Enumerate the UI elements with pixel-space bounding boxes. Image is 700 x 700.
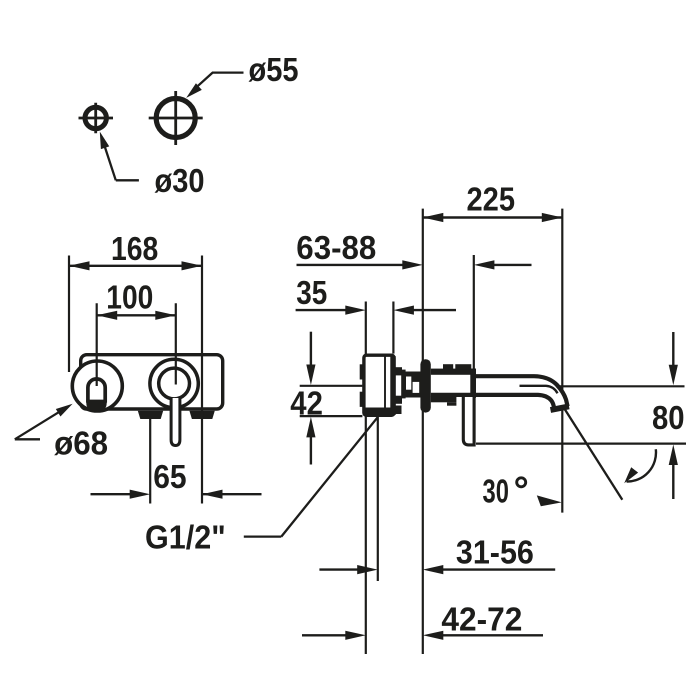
svg-text:ø55: ø55	[249, 51, 299, 88]
extension line for 35 through body	[365, 302, 367, 655]
svg-text:ø68: ø68	[54, 425, 108, 462]
svg-text:42-72: 42-72	[441, 600, 522, 637]
dim 65	[91, 419, 262, 504]
in-wall valve body	[364, 355, 394, 415]
dim 63-88	[297, 255, 532, 370]
top rib 2	[455, 364, 471, 369]
wall plate	[81, 355, 223, 409]
spout shadow blob	[86, 400, 106, 412]
top arm	[394, 367, 403, 375]
svg-text:168: 168	[111, 230, 158, 267]
hole symbol o55 circle with crosshair	[149, 91, 203, 145]
svg-text:65: 65	[153, 458, 186, 495]
white underlay of spout	[431, 376, 566, 408]
leader arrow to o30	[96, 130, 139, 180]
svg-text:31-56: 31-56	[456, 534, 534, 571]
leader arrow to o68	[15, 400, 75, 439]
dim 225	[423, 209, 563, 654]
angle arc	[621, 449, 656, 486]
body left tab top	[360, 364, 363, 379]
bottom rib	[447, 402, 456, 405]
svg-text:35: 35	[296, 274, 327, 311]
dim 42-72	[302, 631, 543, 640]
body inner line	[384, 356, 386, 415]
sleeve bottom bar	[431, 397, 457, 403]
svg-text:63-88: 63-88	[296, 229, 376, 266]
sleeve end cap	[470, 369, 476, 398]
svg-text:100: 100	[106, 279, 153, 316]
body left tab bottom	[360, 392, 363, 407]
water stream diagonal	[564, 409, 622, 500]
svg-text:ø30: ø30	[155, 162, 205, 199]
spout bottom line	[431, 395, 554, 408]
spout top line	[476, 376, 568, 406]
lever handle front	[171, 398, 180, 446]
degree circle of 30deg label	[517, 478, 526, 487]
union nut	[401, 370, 421, 399]
left escutcheon circle o68	[72, 361, 122, 411]
spout mouth	[551, 406, 570, 410]
top rib 1	[443, 364, 453, 369]
dim 80	[476, 332, 686, 499]
body bottom band	[364, 408, 395, 416]
svg-text:80: 80	[652, 399, 685, 436]
svg-text:42: 42	[290, 384, 323, 421]
hole symbol o30 circle with crosshair	[79, 103, 114, 134]
dim 42	[300, 332, 363, 465]
dim 35	[296, 302, 456, 354]
wall flange	[420, 359, 430, 412]
body right edge band	[390, 356, 395, 415]
dim 168	[69, 256, 202, 504]
body bottom step	[394, 406, 402, 415]
leader arrow to o55	[183, 73, 243, 102]
handle inner circle	[159, 368, 190, 399]
label 30deg leader arrow	[537, 495, 562, 506]
sleeve top bar	[431, 369, 476, 375]
leader line G1/2	[244, 417, 378, 536]
short extension line for 31-56	[377, 417, 379, 581]
dim 31-56	[319, 565, 555, 574]
dim 100	[97, 303, 176, 386]
svg-text:30: 30	[483, 473, 509, 510]
left inlet foot	[138, 411, 163, 419]
spout inner line	[520, 386, 558, 394]
svg-text:225: 225	[467, 181, 516, 218]
svg-text:G1/2": G1/2"	[145, 519, 226, 556]
bottom arm	[394, 396, 403, 404]
spout front arch	[88, 379, 105, 403]
lever handle side	[463, 396, 474, 445]
right inlet foot	[189, 411, 214, 419]
handle escutcheon outer circle	[150, 359, 198, 407]
